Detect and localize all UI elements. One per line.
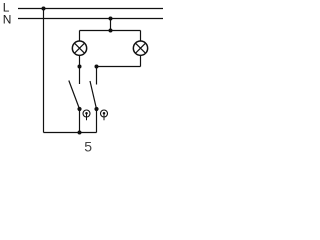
switch S1 lever — [69, 81, 80, 110]
switch S2 pivot dot — [94, 107, 98, 111]
switch S2 actuator circle — [101, 110, 108, 117]
wire L line — [18, 8, 163, 10]
node junction dot on L at x=43.5 — [42, 7, 46, 11]
wire S1 pivot to bus — [79, 109, 81, 133]
wire S2 pivot to bus — [96, 109, 98, 133]
node junction dot splitter — [109, 29, 113, 33]
node junction dot on bus — [78, 131, 82, 135]
switch S2 lever — [90, 81, 97, 109]
wire bottom bus — [44, 132, 97, 134]
node corner dot at switch 2 feed — [95, 65, 99, 69]
svg-text:N: N — [3, 12, 12, 26]
wire lamp E2 bottom down — [140, 55, 142, 66]
svg-text:5: 5 — [84, 138, 92, 154]
wire splitter to lamp E1 top — [79, 31, 81, 42]
lamp E2 — [133, 41, 147, 55]
wire splitter to lamp E2 top — [140, 31, 142, 42]
wire switch 2 fixed contact stub — [96, 67, 98, 85]
wire from L down to bottom bus — [43, 9, 45, 133]
wire splitter horizontal — [80, 30, 141, 32]
wire N drop to splitter — [110, 19, 112, 31]
wire N line — [18, 18, 163, 20]
wire E2 horizontal to switch 2 — [97, 66, 141, 68]
switch S1 actuator circle — [83, 110, 90, 117]
wire lamp E1 bottom to switch 1 fixed contact — [79, 55, 81, 84]
node terminal dot on E1 wire — [78, 65, 82, 69]
lamp E1 — [72, 41, 86, 55]
switch S1 pivot dot — [77, 107, 81, 111]
node junction dot on N at x=110.5 — [109, 17, 113, 21]
